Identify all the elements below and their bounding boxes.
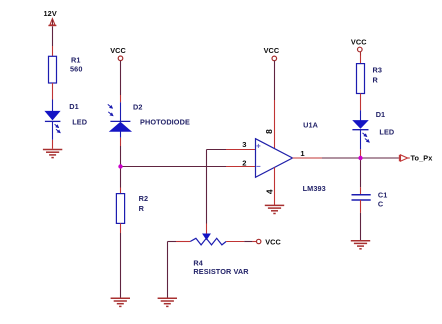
- wire output node to C1: [360, 158, 362, 187]
- wire VCC to pin 8: [274, 61, 276, 101]
- LED D1 (output): [352, 121, 369, 143]
- resistor R1: [49, 56, 57, 83]
- svg-text:3: 3: [242, 140, 246, 149]
- svg-text:D2: D2: [133, 103, 143, 112]
- svg-text:R2: R2: [139, 194, 149, 203]
- wire D2 to junction: [120, 131, 122, 137]
- junction node output: [358, 156, 362, 160]
- svg-text:VCC: VCC: [351, 38, 367, 47]
- svg-text:C: C: [378, 199, 384, 208]
- plus input mark: [256, 144, 260, 148]
- wire output node to To_Px: [361, 157, 399, 159]
- svg-text:2: 2: [242, 158, 246, 167]
- svg-text:U1A: U1A: [303, 120, 319, 129]
- VCC pin circle above U1A: [272, 56, 277, 61]
- svg-text:VCC: VCC: [110, 46, 126, 55]
- wire junction to pin 2: [121, 166, 227, 168]
- svg-text:R3: R3: [373, 66, 383, 75]
- junction node A: [118, 164, 122, 168]
- ground under R4: [158, 298, 177, 306]
- wire output pin 1: [293, 157, 323, 159]
- svg-text:R: R: [373, 76, 379, 85]
- wire 12V to R1: [52, 26, 54, 46]
- svg-text:8: 8: [264, 129, 274, 134]
- svg-text:560: 560: [70, 64, 82, 73]
- LED D1: [45, 111, 61, 132]
- resistor R2: [116, 194, 124, 224]
- wire R4 left to ground: [176, 241, 190, 243]
- VCC pin circle at R4: [257, 239, 261, 243]
- wire R2 to ground: [120, 223, 122, 233]
- svg-text:LM393: LM393: [303, 184, 326, 193]
- ground under R2: [111, 298, 130, 306]
- svg-text:R: R: [139, 204, 145, 213]
- svg-text:12V: 12V: [44, 9, 57, 18]
- wiper arrow R4: [203, 234, 210, 239]
- wire D1 to output node: [360, 130, 362, 150]
- wire D1 to ground: [52, 121, 54, 139]
- resistor R3: [357, 64, 365, 94]
- wire VCC to R3: [360, 52, 362, 56]
- wire pot wiper to pin 3: [207, 149, 227, 151]
- wire R4 right to VCC: [226, 241, 244, 243]
- off-page connector To_Px: [399, 155, 409, 162]
- resistor body R4: [190, 238, 226, 245]
- VCC pin circle: [118, 56, 123, 61]
- svg-text:PHOTODIODE: PHOTODIODE: [140, 117, 190, 126]
- capacitor C1: [352, 195, 371, 200]
- svg-text:LED: LED: [379, 128, 394, 137]
- VCC pin circle above R3: [358, 47, 363, 52]
- wire C1 to ground: [360, 200, 362, 213]
- svg-text:R1: R1: [71, 55, 81, 64]
- svg-text:D1: D1: [376, 110, 386, 119]
- wire VCC to D2: [120, 61, 122, 95]
- photodiode D2: [108, 104, 131, 131]
- svg-text:RESISTOR VAR: RESISTOR VAR: [193, 267, 249, 276]
- svg-text:To_Px: To_Px: [411, 153, 433, 162]
- ground under U1A: [265, 205, 284, 213]
- ground under C1: [351, 241, 370, 249]
- ground under D1: [43, 150, 62, 158]
- svg-text:C1: C1: [378, 191, 388, 200]
- op-amp U1A: [256, 139, 293, 178]
- wire R1 to D1: [52, 83, 54, 100]
- svg-text:4: 4: [264, 189, 274, 194]
- svg-text:VCC: VCC: [265, 237, 281, 246]
- power symbol 12V: [48, 19, 56, 26]
- wire R3 to D1: [360, 94, 362, 111]
- minus input mark: [256, 165, 260, 167]
- wire pin 4 to ground: [274, 167, 276, 205]
- svg-text:VCC: VCC: [264, 46, 280, 55]
- svg-text:LED: LED: [72, 118, 87, 127]
- wire junction to R2: [120, 167, 122, 188]
- svg-text:D1: D1: [69, 102, 79, 111]
